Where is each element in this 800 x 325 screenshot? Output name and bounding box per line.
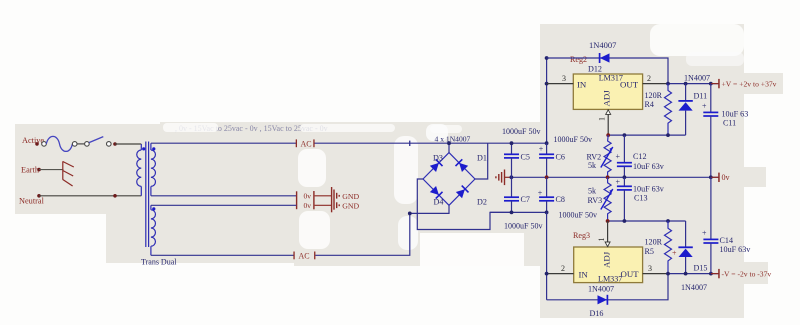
svg-text:10uF 63: 10uF 63 <box>722 110 749 119</box>
svg-text:D2: D2 <box>477 198 487 207</box>
label Trans Dual <box>141 258 177 267</box>
port 0v row2 <box>304 201 312 210</box>
junction dot C8 bottom <box>545 211 549 215</box>
port +V <box>711 79 777 89</box>
svg-text:D11: D11 <box>694 92 708 101</box>
diode D15 <box>672 221 707 292</box>
junction dot D11 top <box>684 82 688 86</box>
junction dot Active <box>35 142 39 146</box>
svg-text:LM337: LM337 <box>598 275 622 284</box>
diode D11 <box>678 73 710 135</box>
junction dot R4 top <box>666 82 670 86</box>
transformer phase dots <box>142 147 145 150</box>
bridge rectifier diamond <box>423 153 475 206</box>
svg-text:IN: IN <box>577 80 587 90</box>
junction dot C7 bottom <box>510 211 514 215</box>
capacitor C7 <box>504 177 542 230</box>
label 4 x 1N4007 <box>435 134 471 143</box>
port -V <box>711 269 772 279</box>
wire negative raw rail down <box>546 212 548 299</box>
svg-text:1: 1 <box>597 238 606 242</box>
svg-text:1000uF 50v: 1000uF 50v <box>554 135 592 144</box>
svg-text:AC: AC <box>299 251 310 260</box>
svg-text:Earth: Earth <box>21 166 40 175</box>
svg-text:10uF 63v: 10uF 63v <box>633 162 665 171</box>
wire D12 bypass <box>547 58 668 84</box>
svg-text:OUT: OUT <box>621 269 640 279</box>
wire positive raw rail <box>546 58 548 143</box>
svg-text:+: + <box>702 229 707 238</box>
svg-text:Active: Active <box>22 136 44 145</box>
wire secondary2 top to 0v port <box>151 204 296 206</box>
junction dot bridge top <box>447 141 451 145</box>
wire tick on AC1 <box>409 141 410 146</box>
svg-text:+: + <box>616 178 621 187</box>
wire Active to transformer <box>115 143 141 145</box>
svg-text:D4: D4 <box>434 198 444 207</box>
junction dot RV3 bottom <box>606 219 610 223</box>
svg-text:GND: GND <box>342 192 359 201</box>
wire Neutral to transformer <box>39 195 141 197</box>
svg-text:120R: 120R <box>645 91 663 100</box>
svg-text:R5: R5 <box>645 247 654 256</box>
wire 0v row1 to GND tie <box>315 195 332 197</box>
wire ADJ node LM337 <box>608 220 686 222</box>
transformer T1 Trans Dual <box>137 142 156 256</box>
svg-text:2: 2 <box>561 264 565 273</box>
svg-text:1N4007: 1N4007 <box>684 73 710 82</box>
svg-text:Neutral: Neutral <box>19 196 45 205</box>
resistor R4 <box>645 84 672 136</box>
svg-text:0v: 0v <box>304 192 312 201</box>
pin 1 ADJ wire LM317 <box>607 109 609 135</box>
pin 2 wire LM337 <box>547 273 574 275</box>
svg-text:D15: D15 <box>694 263 708 272</box>
svg-text:+: + <box>539 145 544 154</box>
junction dot C12 bottom 0v <box>623 175 627 179</box>
junction dot C11 bottom 0v <box>709 175 713 179</box>
wire bridge right corner up <box>475 143 488 179</box>
svg-text:4 x 1N4007: 4 x 1N4007 <box>435 134 471 143</box>
wire 0v row2 to GND tie <box>315 204 332 206</box>
svg-text:1N4007: 1N4007 <box>681 283 707 292</box>
wire bridge top to AC1 <box>448 143 450 152</box>
faded note text <box>175 124 328 133</box>
capacitor C5 <box>502 127 540 178</box>
switch SW1 <box>77 137 111 147</box>
svg-text:10uF 63v: 10uF 63v <box>720 245 752 254</box>
svg-text:GND: GND <box>342 201 359 210</box>
node Active <box>22 136 44 145</box>
junction dot C11 top <box>709 82 713 86</box>
svg-text:C12: C12 <box>633 152 647 161</box>
svg-text:+V = +2v to +37v: +V = +2v to +37v <box>722 79 777 88</box>
wire OUT to +V <box>668 83 719 85</box>
junction dot C6 bottom on 0v <box>545 175 549 179</box>
svg-text:10uF 63v: 10uF 63v <box>633 184 665 193</box>
capacitor C8 <box>538 177 597 219</box>
svg-text:1N4007: 1N4007 <box>589 40 616 50</box>
svg-text:D16: D16 <box>590 309 604 318</box>
pin 2 wire LM317 <box>643 83 668 85</box>
op-amp U2 LM317 regulator box <box>573 74 642 110</box>
junction dot R4 bottom <box>666 133 670 137</box>
svg-text:D12: D12 <box>588 65 602 74</box>
svg-text:ADJ: ADJ <box>601 90 611 107</box>
earth symbol <box>63 161 74 186</box>
svg-text:C5: C5 <box>521 152 530 161</box>
node Earth <box>21 166 40 175</box>
svg-text:1N4007: 1N4007 <box>588 285 614 294</box>
potentiometer RV3 <box>588 177 613 221</box>
wire negative raw bottom <box>490 211 547 213</box>
junction dot ADJ pin <box>606 133 610 137</box>
svg-text:1000uF 50v: 1000uF 50v <box>504 221 542 230</box>
svg-text:0v: 0v <box>304 201 312 210</box>
wire AC2 bottom <box>151 254 294 256</box>
svg-text:OUT: OUT <box>620 80 639 90</box>
svg-text:-V = -2v to -37v: -V = -2v to -37v <box>722 269 772 278</box>
ground GND tie bars <box>332 187 340 212</box>
svg-text:+: + <box>538 189 543 198</box>
diode D4 <box>430 186 443 199</box>
port AC bottom <box>293 251 315 260</box>
wire Earth <box>39 169 64 171</box>
junction dot Earth <box>37 168 41 172</box>
svg-text:120R: 120R <box>645 238 663 247</box>
svg-text:1: 1 <box>598 117 607 121</box>
capacitor C12 <box>616 135 665 177</box>
junction dot RV2 bottom 0v <box>606 175 610 179</box>
junction dot R5 bottom <box>666 272 670 276</box>
svg-text:C11: C11 <box>723 118 736 127</box>
svg-text:+: + <box>616 152 621 161</box>
wire AC2 to bridge bottom <box>315 205 449 255</box>
svg-text:IN: IN <box>579 270 589 280</box>
svg-text:0v: 0v <box>722 173 731 182</box>
junction dot 0v-ground <box>510 175 514 179</box>
svg-text:AC: AC <box>301 139 312 148</box>
svg-text:Reg3: Reg3 <box>573 231 590 240</box>
svg-text:D1: D1 <box>477 154 487 163</box>
junction dot after switch <box>113 142 117 146</box>
diode D1 <box>455 159 468 172</box>
svg-text:Trans Dual: Trans Dual <box>141 258 177 267</box>
junction dot rail pin3 <box>545 82 549 86</box>
wire bridge left corner to C7 C8 bottoms <box>417 179 511 230</box>
wire ADJ node LM317 <box>608 134 685 136</box>
wire AC1 top <box>151 142 296 144</box>
capacitor C11 <box>702 84 748 178</box>
wire D16 bypass <box>547 274 668 300</box>
junction dot Neutral <box>37 194 41 198</box>
junction dot pin2 <box>545 272 549 276</box>
svg-text:3: 3 <box>562 74 566 83</box>
wire OUT to -V <box>668 273 719 275</box>
pin 1 ADJ wire LM337 <box>607 221 609 247</box>
port 0v row1 <box>296 191 315 209</box>
junction dot C14 bottom <box>709 272 713 276</box>
svg-text:+: + <box>702 102 707 111</box>
resistor R5 <box>645 221 672 274</box>
port AC top <box>296 139 315 148</box>
svg-text:3: 3 <box>648 264 652 273</box>
op-amp U3 LM337 regulator box <box>574 247 643 284</box>
junction dot rail top corner <box>545 56 549 60</box>
svg-text:5k: 5k <box>588 186 597 195</box>
junction dot R5 top <box>666 219 670 223</box>
wire ground to rail <box>505 176 512 178</box>
pin 3 wire LM337 <box>643 273 668 275</box>
junction dot C12 top <box>623 133 627 137</box>
junction dot AC2 corner <box>408 212 412 216</box>
diode D16 <box>598 295 608 305</box>
svg-text:RV3: RV3 <box>588 196 603 205</box>
svg-text:1000uF 50v: 1000uF 50v <box>559 210 597 219</box>
junction dot C13 bottom <box>623 219 627 223</box>
port 0v right <box>711 173 731 183</box>
svg-text:ADJ: ADJ <box>601 251 611 268</box>
diode D12 <box>600 53 610 63</box>
junction dot C6 top <box>545 141 549 145</box>
ground symbol on 0v rail <box>496 170 505 186</box>
svg-text:C6: C6 <box>556 152 565 161</box>
diode D3 <box>430 159 443 172</box>
svg-text:2: 2 <box>647 74 651 83</box>
svg-text:D3: D3 <box>433 154 443 163</box>
pin 3 wire LM317 <box>547 83 574 85</box>
junction dot C5 top <box>510 141 514 145</box>
svg-text:R4: R4 <box>645 100 654 109</box>
svg-text:C7: C7 <box>521 195 530 204</box>
svg-text:5k: 5k <box>588 161 597 170</box>
fuse F1 <box>42 136 77 151</box>
svg-text:Reg2: Reg2 <box>570 55 587 64</box>
wire secondary1 bottom to 0v port <box>151 195 296 197</box>
capacitor C14 <box>702 177 751 273</box>
svg-text:C8: C8 <box>556 195 565 204</box>
node Neutral <box>19 196 45 205</box>
wire 0v rail <box>511 176 718 178</box>
label Reg3 <box>573 231 590 240</box>
label Reg2 <box>570 55 587 64</box>
svg-text:C13: C13 <box>634 194 648 203</box>
potentiometer RV2 <box>587 135 613 177</box>
svg-text:+: + <box>672 249 677 258</box>
junction dot on Neutral wire <box>113 194 117 198</box>
capacitor C13 <box>616 177 665 221</box>
capacitor C6 <box>539 135 592 178</box>
diode D2 <box>456 186 469 199</box>
svg-text:1000uF 50v: 1000uF 50v <box>502 127 540 136</box>
junction dot D15 bottom <box>684 272 688 276</box>
